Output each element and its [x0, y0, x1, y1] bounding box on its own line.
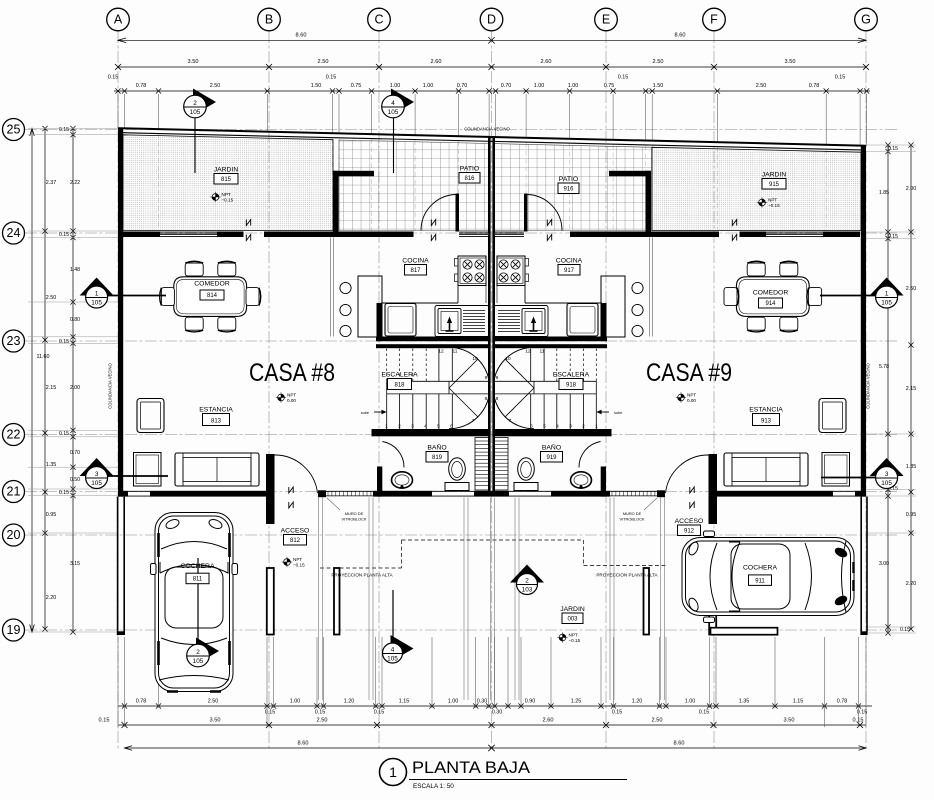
svg-text:105: 105 [388, 109, 399, 116]
section flag 4/105 top [391, 89, 414, 116]
svg-text:2.50: 2.50 [208, 699, 219, 705]
svg-text:105: 105 [387, 655, 398, 662]
grid column markers A-G [107, 8, 130, 31]
patio L-wall casa9 [609, 171, 651, 177]
shower stripes [475, 438, 489, 491]
svg-text:2.15: 2.15 [46, 385, 57, 391]
svg-text:0.15: 0.15 [618, 75, 629, 81]
wall opening glyph [289, 487, 293, 493]
svg-text:2.50: 2.50 [653, 59, 664, 65]
svg-text:0.95: 0.95 [46, 512, 57, 518]
drainboard [463, 310, 485, 312]
side table [134, 453, 162, 487]
svg-text:MURO DE: MURO DE [345, 511, 364, 516]
svg-text:0.15: 0.15 [888, 234, 898, 240]
vitroblock strip casa8 [318, 490, 326, 497]
svg-text:1.00: 1.00 [448, 699, 459, 705]
casa9 carport rear bar [711, 628, 778, 635]
svg-text:G: G [861, 13, 871, 27]
svg-text:2: 2 [582, 424, 585, 430]
svg-text:2.50: 2.50 [756, 83, 767, 89]
bar counter [601, 276, 625, 337]
svg-text:2.50: 2.50 [210, 83, 221, 89]
svg-text:916: 916 [563, 187, 574, 193]
svg-text:0.78: 0.78 [136, 83, 147, 89]
svg-text:COCINA: COCINA [402, 258, 429, 265]
cochera pier casa8 b [334, 568, 340, 635]
svg-text:2.50: 2.50 [46, 295, 57, 301]
svg-text:1.00: 1.00 [534, 83, 545, 89]
svg-text:9: 9 [485, 375, 488, 381]
svg-text:0.15: 0.15 [99, 718, 110, 724]
svg-text:PATIO: PATIO [559, 176, 578, 183]
svg-text:0.95: 0.95 [906, 512, 917, 518]
svg-text:COCHERA: COCHERA [743, 565, 777, 572]
svg-text:816: 816 [464, 176, 475, 182]
section flag 3/105 left [80, 458, 114, 476]
svg-text:3: 3 [95, 471, 99, 478]
fridge [385, 304, 416, 337]
svg-text:21: 21 [7, 485, 21, 499]
svg-text:PROYECCION PLANTA ALTA: PROYECCION PLANTA ALTA [331, 573, 393, 578]
svg-text:105: 105 [881, 480, 892, 487]
svg-text:8: 8 [485, 396, 488, 402]
svg-text:JARDIN: JARDIN [560, 606, 585, 613]
svg-text:−0.15: −0.15 [293, 562, 305, 567]
svg-text:2.60: 2.60 [541, 59, 552, 65]
stair top wall casa9 [492, 344, 607, 348]
bottom dimension chains [118, 705, 872, 707]
svg-text:11.60: 11.60 [36, 354, 49, 360]
svg-text:1.48: 1.48 [70, 267, 80, 273]
shower stripes [494, 438, 508, 491]
svg-text:0.15: 0.15 [326, 75, 337, 81]
wall opening glyph [547, 220, 551, 226]
svg-text:0.75: 0.75 [351, 83, 362, 89]
svg-text:0.15: 0.15 [699, 710, 710, 716]
svg-text:2.15: 2.15 [906, 386, 917, 392]
svg-text:PROYECCION PLANTA ALTA: PROYECCION PLANTA ALTA [596, 573, 658, 578]
svg-text:ESCALERA: ESCALERA [381, 372, 418, 379]
svg-text:1.35: 1.35 [739, 699, 750, 705]
svg-text:20: 20 [7, 528, 21, 542]
dining table [736, 277, 809, 317]
svg-text:1: 1 [385, 424, 388, 430]
stair/bath wall casa8 [372, 429, 491, 436]
svg-text:11: 11 [453, 349, 458, 355]
svg-text:105: 105 [91, 300, 102, 307]
svg-text:1.00: 1.00 [685, 699, 696, 705]
svg-text:25: 25 [7, 123, 21, 137]
front wall y492 casa8 [118, 491, 128, 497]
jardin 815 hatch [123, 135, 333, 231]
svg-text:2: 2 [193, 100, 197, 107]
sofa [175, 453, 259, 486]
left wall lower (hollow) [117, 497, 119, 632]
svg-text:B: B [265, 13, 273, 27]
svg-text:CASA #9: CASA #9 [646, 359, 732, 387]
svg-text:003: 003 [567, 617, 578, 623]
svg-text:0.78: 0.78 [136, 699, 147, 705]
dining table [174, 277, 247, 317]
svg-text:3.00: 3.00 [879, 561, 889, 567]
svg-text:7: 7 [509, 418, 512, 424]
svg-text:1.00: 1.00 [290, 699, 301, 705]
wall opening glyph [732, 220, 736, 226]
front wall casa9 [551, 491, 610, 497]
svg-text:2.60: 2.60 [431, 59, 442, 65]
row24 wall casa8 [123, 232, 160, 238]
patio 916 tiles [494, 144, 652, 231]
svg-text:3: 3 [569, 424, 572, 430]
svg-text:1.00: 1.00 [568, 83, 579, 89]
armchair [137, 399, 164, 433]
svg-text:3: 3 [411, 424, 414, 430]
svg-text:914: 914 [765, 301, 776, 307]
proyeccion planta alta dashes [320, 567, 402, 569]
patio 816 tiles [339, 140, 489, 231]
svg-text:8: 8 [496, 396, 499, 402]
top dimension chains [118, 39, 866, 41]
svg-text:1.00: 1.00 [390, 83, 401, 89]
bar counter [358, 276, 382, 337]
stools [340, 282, 351, 293]
svg-text:2.20: 2.20 [906, 581, 917, 587]
cochera pier casa9 b [644, 568, 650, 635]
svg-text:C: C [374, 13, 383, 27]
svg-text:919: 919 [546, 455, 557, 461]
patio L-wall casa8 [333, 171, 374, 177]
escalera 918 stairs [595, 394, 597, 429]
svg-text:F: F [710, 13, 718, 27]
svg-text:PATIO: PATIO [460, 166, 479, 173]
svg-text:0.15: 0.15 [315, 710, 326, 716]
wall opening glyph [690, 487, 694, 493]
svg-text:0.15: 0.15 [59, 431, 69, 437]
wall opening glyph [431, 220, 435, 226]
svg-text:VITROBLOCK: VITROBLOCK [619, 517, 644, 522]
kitchen counter [381, 302, 458, 304]
svg-text:0.78: 0.78 [837, 699, 848, 705]
svg-text:2.37: 2.37 [46, 180, 57, 186]
kitchen corner wall casa8 [377, 303, 383, 341]
svg-text:COMEDOR: COMEDOR [753, 290, 789, 297]
svg-text:sube: sube [361, 411, 369, 415]
svg-text:105: 105 [193, 658, 204, 665]
svg-text:814: 814 [207, 293, 218, 299]
kitchen bottom wall casa8 [376, 337, 491, 342]
svg-text:8.60: 8.60 [296, 33, 307, 39]
svg-text:2.00: 2.00 [70, 385, 80, 391]
svg-text:0.15: 0.15 [888, 146, 898, 152]
svg-text:11: 11 [540, 349, 545, 355]
svg-text:0.15: 0.15 [835, 75, 846, 81]
svg-text:ESCALERA: ESCALERA [553, 372, 590, 379]
svg-text:1: 1 [95, 291, 99, 298]
section flag 2/105 bottom (car) [197, 558, 199, 644]
wall opening glyph [246, 220, 250, 226]
stove [458, 256, 486, 286]
svg-text:6: 6 [530, 424, 533, 430]
right outer wall [861, 146, 866, 497]
svg-text:0.00: 0.00 [687, 398, 696, 403]
svg-text:0.15: 0.15 [900, 627, 910, 633]
right wall lower (hollow) [860, 497, 862, 632]
bath door casa8 [383, 442, 405, 468]
svg-text:8.60: 8.60 [675, 33, 686, 39]
svg-text:0.70: 0.70 [501, 83, 512, 89]
comedor/cocina divider casa9 [649, 238, 651, 337]
sube arrow casa9 [598, 411, 609, 413]
svg-text:ACCESO: ACCESO [281, 528, 310, 535]
svg-text:1: 1 [595, 424, 598, 430]
chairs [780, 261, 798, 276]
entry door jamb casa8 [266, 454, 275, 524]
row24 wall casa9 [570, 232, 719, 238]
kitchen corner wall casa9 [601, 303, 607, 341]
svg-text:105: 105 [190, 109, 201, 116]
svg-text:1.00: 1.00 [423, 83, 434, 89]
svg-text:0.15: 0.15 [59, 339, 69, 345]
svg-text:ESTANCIA: ESTANCIA [749, 407, 783, 414]
svg-text:915: 915 [769, 182, 780, 188]
svg-text:1.20: 1.20 [344, 699, 355, 705]
svg-text:9: 9 [496, 375, 499, 381]
svg-text:2.50: 2.50 [318, 59, 329, 65]
svg-text:sube: sube [614, 411, 622, 415]
svg-text:0.15: 0.15 [59, 232, 69, 238]
sofa [724, 453, 808, 486]
svg-text:0.30: 0.30 [492, 710, 503, 716]
washbasin [571, 472, 592, 488]
jardin 915 hatch [652, 147, 861, 230]
svg-text:818: 818 [394, 383, 405, 389]
left dimension chains [31, 129, 33, 633]
section flag 1/105 left [80, 278, 114, 296]
svg-text:2.50: 2.50 [906, 286, 917, 292]
svg-text:COMEDOR: COMEDOR [194, 281, 230, 288]
svg-text:COLINDANCIA VECINO: COLINDANCIA VECINO [866, 362, 871, 408]
svg-text:103: 103 [522, 587, 533, 594]
sube arrow casa8 [374, 411, 385, 413]
svg-text:817: 817 [410, 268, 421, 274]
svg-text:0.30: 0.30 [477, 699, 488, 705]
svg-text:COLINDANCIA VECINO: COLINDANCIA VECINO [464, 127, 510, 132]
bath left wall casa8 [377, 467, 382, 497]
fridge [567, 304, 598, 337]
svg-text:0.15: 0.15 [59, 490, 69, 496]
toilet [449, 458, 466, 480]
svg-text:1.15: 1.15 [793, 699, 804, 705]
svg-text:0.15: 0.15 [108, 75, 119, 81]
svg-text:2: 2 [525, 578, 529, 585]
chairs [185, 261, 203, 276]
svg-text:0.78: 0.78 [809, 83, 820, 89]
svg-text:3.50: 3.50 [210, 718, 221, 724]
svg-text:1.20: 1.20 [632, 699, 643, 705]
top boundary wall [118, 128, 866, 146]
svg-text:812: 812 [290, 538, 301, 544]
svg-text:8.60: 8.60 [298, 741, 309, 747]
section flag 2/105 top [193, 89, 216, 116]
sink [494, 306, 548, 337]
right dimension chains [887, 145, 889, 633]
svg-text:−0.15: −0.15 [768, 203, 780, 208]
svg-text:3.50: 3.50 [188, 59, 199, 65]
svg-text:1.35: 1.35 [906, 464, 917, 470]
svg-text:1.50: 1.50 [653, 83, 664, 89]
svg-text:911: 911 [755, 578, 765, 584]
svg-text:2.22: 2.22 [70, 180, 80, 186]
svg-text:2.20: 2.20 [46, 595, 57, 601]
bath door casa9 [579, 442, 601, 468]
svg-text:23: 23 [7, 334, 21, 348]
svg-text:1: 1 [885, 291, 889, 298]
side table [822, 453, 850, 487]
patio door casa8 [456, 194, 460, 232]
svg-text:0.15: 0.15 [59, 127, 69, 133]
section flag 1/105 right [870, 278, 904, 296]
svg-text:1.25: 1.25 [571, 699, 582, 705]
svg-text:8.60: 8.60 [674, 741, 685, 747]
svg-text:4: 4 [424, 424, 427, 430]
svg-text:−0.15: −0.15 [569, 638, 581, 643]
entry door casa9 [666, 455, 709, 493]
svg-text:1.50: 1.50 [311, 83, 322, 89]
cochera pier casa9 a [709, 568, 716, 635]
svg-text:2: 2 [196, 649, 200, 656]
bath right wall casa9 [601, 467, 606, 497]
svg-text:10: 10 [472, 356, 478, 362]
svg-text:2.60: 2.60 [543, 718, 554, 724]
grid row markers 25-19 [3, 119, 25, 141]
svg-text:105: 105 [881, 300, 892, 307]
svg-text:5.78: 5.78 [879, 364, 889, 370]
svg-text:12: 12 [525, 349, 531, 355]
svg-text:0.15: 0.15 [265, 710, 276, 716]
patio door casa9 [524, 194, 528, 232]
svg-text:6: 6 [450, 424, 453, 430]
svg-text:917: 917 [564, 268, 575, 274]
svg-text:3: 3 [885, 471, 889, 478]
svg-text:COCINA: COCINA [556, 258, 583, 265]
svg-text:JARDIN: JARDIN [214, 167, 239, 174]
svg-text:JARDIN: JARDIN [762, 172, 787, 179]
armchair [819, 399, 846, 433]
svg-text:−0.15: −0.15 [222, 197, 234, 202]
svg-text:COLINDANCIA VECINO: COLINDANCIA VECINO [108, 362, 113, 408]
party wall casa9 [492, 137, 495, 497]
svg-text:4: 4 [391, 646, 395, 653]
svg-text:2.50: 2.50 [317, 718, 328, 724]
stair/bath wall casa9 [492, 429, 611, 436]
comedor/cocina divider casa8 [330, 238, 332, 337]
entry door casa8 [275, 455, 318, 493]
svg-text:912: 912 [684, 529, 695, 535]
party wall casa8 [488, 137, 491, 497]
svg-text:2: 2 [398, 424, 401, 430]
kitchen counter [525, 302, 602, 304]
cochera pier casa8 a [267, 568, 274, 635]
svg-text:105: 105 [91, 480, 102, 487]
svg-text:VITROBLOCK: VITROBLOCK [341, 517, 366, 522]
svg-text:0.70: 0.70 [457, 83, 468, 89]
svg-text:E: E [602, 13, 610, 27]
svg-text:0.70: 0.70 [70, 450, 80, 456]
svg-text:CASA #8: CASA #8 [249, 359, 335, 387]
svg-text:ACCESO: ACCESO [675, 518, 704, 525]
svg-text:4: 4 [556, 424, 559, 430]
svg-text:3.15: 3.15 [70, 561, 80, 567]
svg-text:3.50: 3.50 [785, 59, 796, 65]
svg-text:0.75: 0.75 [604, 83, 615, 89]
washbasin [392, 472, 413, 488]
svg-text:ESTANCIA: ESTANCIA [199, 407, 233, 414]
svg-text:811: 811 [193, 577, 203, 583]
svg-text:1: 1 [389, 764, 397, 780]
svg-text:813: 813 [211, 419, 222, 425]
stair top wall casa8 [376, 344, 491, 348]
svg-text:0.15: 0.15 [853, 718, 864, 724]
svg-text:MURO DE: MURO DE [623, 511, 642, 516]
svg-text:0.80: 0.80 [70, 317, 80, 323]
car cochera 911 (horizontal) [682, 531, 854, 623]
svg-text:819: 819 [432, 455, 443, 461]
svg-text:0.90: 0.90 [525, 699, 536, 705]
svg-text:PLANTA BAJA: PLANTA BAJA [412, 758, 531, 777]
stove [497, 256, 525, 286]
svg-text:10: 10 [505, 356, 511, 362]
svg-text:815: 815 [221, 177, 232, 183]
svg-text:4: 4 [391, 100, 395, 107]
left outer wall [118, 128, 123, 496]
svg-text:BAÑO: BAÑO [542, 443, 561, 452]
svg-text:ESCALA 1: 50: ESCALA 1: 50 [413, 783, 454, 790]
svg-text:24: 24 [7, 226, 21, 240]
svg-text:7: 7 [472, 418, 475, 424]
title block [380, 759, 407, 786]
svg-text:0.15: 0.15 [374, 710, 385, 716]
vitroblock strip casa9 [657, 490, 665, 497]
kitchen bottom wall casa9 [492, 337, 607, 342]
svg-text:5: 5 [543, 424, 546, 430]
svg-text:3.50: 3.50 [784, 718, 795, 724]
entry door jamb casa9 [709, 454, 718, 524]
svg-text:1.15: 1.15 [399, 699, 410, 705]
walkway edge lines [318, 498, 320, 701]
svg-text:0.15: 0.15 [612, 710, 623, 716]
svg-text:913: 913 [761, 419, 772, 425]
escalera 818 stairs [386, 394, 388, 429]
svg-text:1.85: 1.85 [879, 190, 889, 196]
sink [435, 306, 489, 337]
svg-text:2.00: 2.00 [906, 186, 917, 192]
svg-text:5: 5 [437, 424, 440, 430]
car cochera 811 (vertical) [151, 513, 238, 692]
toilet [518, 458, 535, 480]
svg-text:918: 918 [566, 383, 577, 389]
drainboard [498, 310, 520, 312]
svg-text:19: 19 [7, 623, 21, 637]
svg-text:A: A [114, 13, 123, 27]
stools [632, 282, 643, 293]
svg-text:12: 12 [438, 349, 444, 355]
section flag 4/105 bottom [392, 590, 394, 643]
svg-text:COCHERA: COCHERA [181, 563, 215, 570]
section flag 2/103 [510, 565, 544, 583]
section flag 3/105 right [870, 458, 904, 476]
svg-text:22: 22 [7, 428, 21, 442]
